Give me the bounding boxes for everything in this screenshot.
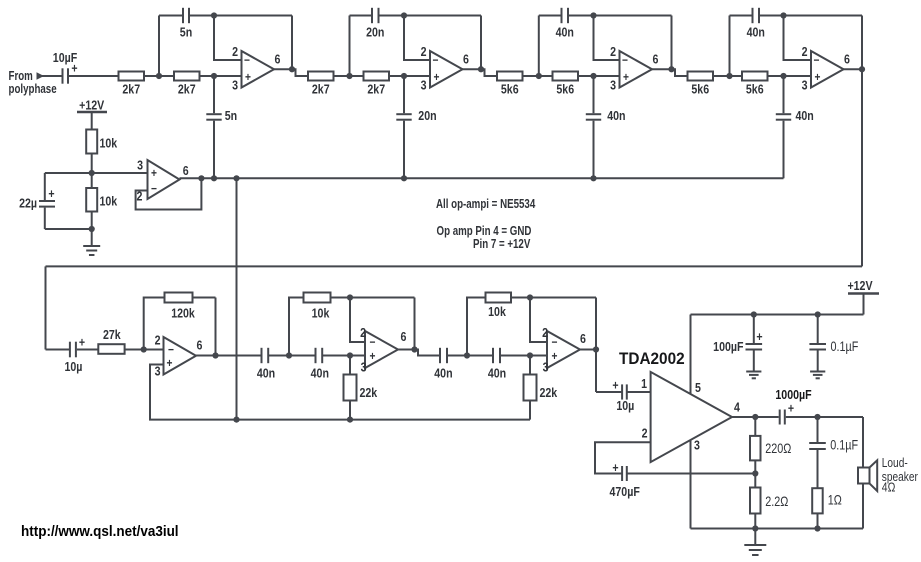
wire: B second cap to op B +input bbox=[323, 355, 365, 357]
wire: lower divider to ground node bbox=[91, 212, 93, 230]
svg-text:2k7: 2k7 bbox=[367, 83, 385, 97]
wire: speaker top lead bbox=[862, 417, 864, 468]
svg-text:−: − bbox=[370, 336, 376, 349]
svg-text:220Ω: 220Ω bbox=[765, 441, 791, 456]
resistor 2k7 (stage 2 first) bbox=[308, 72, 334, 97]
wire: divider mid bbox=[91, 154, 93, 189]
svg-text:2: 2 bbox=[542, 326, 548, 340]
svg-text:10k: 10k bbox=[100, 137, 118, 151]
wire: C second cap to op C +input bbox=[501, 355, 548, 357]
resistor 10k (lower divider) bbox=[86, 188, 118, 212]
capacitor 40n feedback (stage 4) bbox=[730, 8, 863, 40]
svg-text:6: 6 bbox=[653, 53, 659, 67]
capacitor 40n shunt (stage 4) bbox=[776, 76, 814, 178]
svg-text:20n: 20n bbox=[366, 26, 384, 40]
svg-text:40n: 40n bbox=[257, 367, 275, 381]
resistor 22k (B) bbox=[344, 356, 378, 420]
svg-text:+12V: +12V bbox=[79, 99, 104, 113]
svg-text:2.2Ω: 2.2Ω bbox=[765, 494, 788, 509]
svg-text:6: 6 bbox=[401, 330, 407, 344]
svg-text:10µ: 10µ bbox=[616, 399, 634, 413]
svg-text:120k: 120k bbox=[171, 307, 195, 321]
node: rail / second-row tap bbox=[233, 175, 239, 181]
node: stage 2 output junction bbox=[478, 66, 484, 72]
note: pin4 GND bbox=[437, 225, 532, 238]
node: rail / 20n shunt junction bbox=[401, 175, 407, 181]
svg-text:6: 6 bbox=[580, 332, 586, 346]
wire: op A output bbox=[196, 355, 261, 357]
svg-text:2: 2 bbox=[360, 326, 366, 340]
svg-text:1000µF: 1000µF bbox=[775, 388, 811, 402]
node: C feedback / pin2 junction bbox=[527, 294, 533, 300]
capacitor 0.1µF (supply) bbox=[809, 315, 858, 372]
svg-text:22k: 22k bbox=[360, 386, 378, 400]
svg-text:+: + bbox=[612, 379, 618, 393]
wire: stage 4 J2 to op-amp +input bbox=[768, 75, 812, 77]
svg-text:−: − bbox=[433, 54, 439, 67]
node: rail2 / rail drop junction bbox=[233, 417, 239, 423]
capacitor 100µF (supply) bbox=[713, 315, 763, 372]
svg-text:4Ω: 4Ω bbox=[882, 480, 896, 494]
svg-text:−: − bbox=[552, 336, 558, 349]
wire: stage 4 output down right edge bbox=[861, 69, 863, 266]
op-amp NE5534 stage 4 bbox=[802, 45, 851, 93]
wire: stage 3 pin2 drop bbox=[594, 16, 620, 61]
pin 4 label bbox=[734, 401, 740, 415]
node: stage 4 output junction bbox=[859, 66, 865, 72]
op-amp NE5534 A (second row) bbox=[155, 334, 203, 379]
node: rail2 / 22k junction bbox=[347, 417, 353, 423]
wire: reference rail bbox=[180, 177, 784, 179]
wire: pin5 to +12V rail bbox=[691, 315, 864, 395]
svg-text:−: − bbox=[168, 344, 174, 357]
note: pin7 +12V bbox=[473, 238, 531, 251]
svg-text:40n: 40n bbox=[311, 367, 329, 381]
svg-text:+: + bbox=[151, 167, 157, 180]
power +12V (divider supply) bbox=[77, 99, 107, 130]
svg-text:+: + bbox=[612, 461, 618, 475]
wire: stage 4 feedback riser from J1 bbox=[729, 16, 731, 77]
svg-text:3: 3 bbox=[694, 439, 700, 453]
svg-text:All op-ampi = NE5534: All op-ampi = NE5534 bbox=[436, 198, 536, 211]
svg-text:3: 3 bbox=[802, 79, 808, 93]
wire: 1000µF to speaker branch bbox=[786, 416, 863, 418]
svg-text:27k: 27k bbox=[103, 328, 121, 342]
node: output / 0.1µF zobel junction bbox=[814, 414, 820, 420]
node: stage 3 output junction bbox=[668, 66, 674, 72]
svg-text:+: + bbox=[167, 357, 173, 370]
svg-text:5n: 5n bbox=[180, 26, 192, 40]
svg-text:+: + bbox=[434, 71, 440, 84]
svg-text:3: 3 bbox=[543, 361, 549, 375]
svg-text:470µF: 470µF bbox=[610, 485, 640, 499]
wire: C node bbox=[448, 355, 494, 357]
node: stage 2 junction J1 bbox=[346, 73, 352, 79]
pin 5 label bbox=[695, 381, 701, 395]
wire: stage 1 node J1 bbox=[144, 75, 174, 77]
node: stage 3 junction J1 bbox=[536, 73, 542, 79]
node: op A input junction bbox=[141, 346, 147, 352]
capacitor 0.1µF (zobel) bbox=[809, 417, 858, 488]
svg-text:40n: 40n bbox=[607, 109, 625, 123]
capacitor 40n feedback (stage 3) bbox=[539, 8, 672, 40]
resistor 5k6 (stage 4 first) bbox=[688, 72, 714, 97]
svg-text:2: 2 bbox=[610, 45, 616, 59]
svg-text:+: + bbox=[245, 71, 251, 84]
op-amp NE5534 C (second row) bbox=[542, 326, 586, 375]
wire: op B output jog bbox=[398, 350, 440, 356]
wire: rail drop to second row + inputs bbox=[236, 178, 238, 419]
svg-text:5k6: 5k6 bbox=[691, 83, 709, 97]
resistor 22k (C) bbox=[524, 356, 558, 420]
wire: op A +input to rail2 bbox=[150, 365, 237, 420]
wire: stage 3 op-amp output bbox=[652, 69, 688, 76]
resistor 120k feedback bbox=[144, 293, 216, 356]
svg-text:2k7: 2k7 bbox=[312, 83, 330, 97]
svg-text:6: 6 bbox=[183, 164, 189, 178]
op-amp NE5534 follower (reference buffer) bbox=[137, 159, 190, 204]
svg-text:40n: 40n bbox=[556, 26, 574, 40]
svg-text:3: 3 bbox=[155, 365, 161, 379]
svg-text:3: 3 bbox=[610, 79, 616, 93]
svg-text:20n: 20n bbox=[418, 109, 436, 123]
wire: divider mid to follower +input bbox=[45, 172, 148, 174]
wire: C pin2 drop bbox=[530, 298, 547, 343]
wire: stage 3 J2 to op-amp +input bbox=[578, 75, 620, 77]
svg-text:100µF: 100µF bbox=[713, 340, 743, 354]
node: op B output junction bbox=[411, 346, 417, 352]
svg-text:22µ: 22µ bbox=[19, 197, 37, 211]
capacitor 40n (row2 C second) bbox=[488, 348, 506, 381]
node: B feedback / pin2 junction bbox=[347, 294, 353, 300]
wire: 10µ to pin1 bbox=[628, 391, 651, 393]
svg-text:6: 6 bbox=[844, 53, 850, 67]
svg-text:2: 2 bbox=[421, 45, 427, 59]
svg-text:2: 2 bbox=[802, 45, 808, 59]
wire: stage 1 feedback to output bbox=[291, 16, 293, 70]
capacitor 10µ (second row coupling) bbox=[46, 336, 86, 375]
resistor 2k7 (stage 1 first) bbox=[119, 72, 145, 97]
wire: speaker bottom lead bbox=[862, 484, 864, 529]
node: +12V rail / 0.1µF junction bbox=[815, 311, 821, 317]
node: stage 2 junction J2 bbox=[401, 73, 407, 79]
svg-text:+: + bbox=[79, 336, 85, 350]
svg-text:http://www.qsl.net/va3iul: http://www.qsl.net/va3iul bbox=[21, 523, 179, 540]
svg-text:1: 1 bbox=[641, 377, 647, 391]
svg-text:+: + bbox=[788, 402, 794, 416]
resistor 2k7 (stage 2 second) bbox=[364, 72, 390, 97]
ground (100µF) bbox=[746, 372, 761, 379]
svg-text:2: 2 bbox=[232, 45, 238, 59]
wire: stage 4 op-amp output bbox=[844, 68, 863, 70]
svg-text:−: − bbox=[151, 183, 157, 196]
svg-text:3: 3 bbox=[232, 79, 238, 93]
svg-text:−: − bbox=[622, 54, 628, 67]
label: site URL bbox=[21, 523, 179, 540]
resistor 2k7 (stage 1 second) bbox=[174, 72, 200, 97]
wire: stage 4 pin2 drop bbox=[784, 16, 812, 61]
wire: input to coupling cap bbox=[42, 75, 62, 77]
wire: stage 2 pin2 drop bbox=[404, 16, 430, 61]
node: ground rail / 1 junction bbox=[814, 525, 820, 531]
node: rail / 40n shunt junction bbox=[590, 175, 596, 181]
svg-text:40n: 40n bbox=[434, 367, 452, 381]
wire: 10µ to 27k bbox=[77, 349, 98, 351]
wire: stage 4 feedback to output bbox=[861, 16, 863, 70]
op-amp NE5534 B (second row) bbox=[360, 326, 407, 375]
wire: amplifier ground rail bbox=[691, 528, 864, 530]
wire: stage 2 J2 to op-amp +input bbox=[389, 75, 430, 77]
svg-text:5n: 5n bbox=[225, 109, 237, 123]
wire: B node bbox=[269, 355, 316, 357]
wire: rail2 (ground-reference row 2) bbox=[237, 419, 531, 421]
svg-text:40n: 40n bbox=[796, 109, 814, 123]
capacitor 40n shunt (stage 3) bbox=[586, 76, 626, 178]
svg-text:6: 6 bbox=[463, 53, 469, 67]
wire: stage 1 pin2 drop bbox=[214, 16, 242, 61]
svg-text:6: 6 bbox=[197, 339, 203, 353]
capacitor 40n (row2 C first) bbox=[434, 348, 452, 381]
svg-text:2: 2 bbox=[642, 427, 648, 441]
resistor 1Ω (zobel) bbox=[812, 488, 842, 528]
resistor 5k6 (stage 3 second) bbox=[553, 72, 579, 97]
svg-text:5k6: 5k6 bbox=[501, 83, 519, 97]
svg-text:+: + bbox=[552, 350, 558, 363]
capacitor 20n shunt (stage 2) bbox=[396, 76, 436, 178]
wire: stage 1 op-amp output bbox=[274, 69, 308, 76]
wire: stage 4 node J1 bbox=[713, 75, 742, 77]
svg-text:0.1µF: 0.1µF bbox=[831, 339, 859, 354]
node: stage 4 junction J2 bbox=[780, 73, 786, 79]
svg-text:40n: 40n bbox=[488, 367, 506, 381]
wire: stage 3 feedback riser from J1 bbox=[538, 16, 540, 77]
svg-text:22k: 22k bbox=[540, 386, 558, 400]
wire: stage 2 feedback to output bbox=[480, 16, 482, 70]
svg-text:10k: 10k bbox=[312, 307, 330, 321]
wire: stage 2 op-amp output bbox=[463, 69, 498, 76]
capacitor 10µF input coupling bbox=[53, 51, 78, 83]
svg-text:Op amp Pin 4 = GND: Op amp Pin 4 = GND bbox=[437, 225, 532, 238]
resistor 5k6 (stage 3 first) bbox=[497, 72, 523, 97]
resistor 10k (upper divider) bbox=[86, 130, 118, 154]
node: stage 1 output junction bbox=[289, 66, 295, 72]
resistor 10k feedback (B) bbox=[289, 293, 415, 356]
capacitor 5n feedback (stage 1) bbox=[159, 8, 292, 40]
svg-text:2k7: 2k7 bbox=[122, 83, 140, 97]
wire: B pin2 drop bbox=[350, 298, 365, 343]
resistor 5k6 (stage 4 second) bbox=[742, 72, 768, 97]
resistor 2.2Ω bbox=[750, 474, 788, 529]
svg-text:From: From bbox=[9, 70, 33, 83]
wire: 27k to op-amp A -input bbox=[125, 349, 164, 351]
svg-text:Pin 7 = +12V: Pin 7 = +12V bbox=[473, 238, 531, 251]
svg-text:10µ: 10µ bbox=[65, 360, 83, 374]
node: stage 1 junction J1 bbox=[156, 73, 162, 79]
svg-text:polyphase: polyphase bbox=[9, 83, 57, 96]
node: stage 1 junction J2 bbox=[211, 73, 217, 79]
label TDA2002 bbox=[619, 351, 685, 369]
svg-text:10k: 10k bbox=[488, 305, 506, 319]
op-amp NE5534 stage 1 bbox=[232, 45, 281, 93]
node: B middle node bbox=[286, 352, 292, 358]
svg-text:40n: 40n bbox=[747, 26, 765, 40]
svg-text:+: + bbox=[756, 330, 762, 344]
node: input label 'From polyphase' bbox=[9, 70, 57, 96]
resistor 220Ω (feedback) bbox=[750, 417, 791, 474]
wire: return line to second row bbox=[46, 265, 863, 267]
ground (divider) bbox=[83, 229, 100, 255]
wire: left drop to 10µ cap bbox=[45, 266, 47, 349]
wire: stage 1 J2 to op-amp +input bbox=[200, 75, 242, 77]
wire: op C output to TDA input bbox=[580, 350, 622, 393]
capacitor 20n feedback (stage 2) bbox=[350, 8, 482, 40]
wire: pin3 to ground rail bbox=[690, 440, 692, 529]
node: B output node junction bbox=[347, 352, 353, 358]
wire: follower feedback loop bbox=[136, 178, 202, 209]
node: C output node junction bbox=[527, 352, 533, 358]
svg-text:+: + bbox=[48, 187, 54, 201]
svg-text:−: − bbox=[814, 54, 820, 67]
svg-text:−: − bbox=[244, 54, 250, 67]
svg-text:2: 2 bbox=[155, 334, 161, 348]
svg-text:+: + bbox=[815, 71, 821, 84]
wire: 10µF to first 2k7 bbox=[69, 75, 119, 77]
ground (0.1µF) bbox=[810, 372, 825, 379]
note: op-amp type bbox=[436, 198, 536, 211]
node: divider ground junction bbox=[89, 226, 95, 232]
node: C middle node bbox=[464, 352, 470, 358]
capacitor 10µ (TDA input) bbox=[612, 379, 634, 414]
node: op A output / 120k junction bbox=[212, 352, 218, 358]
capacitor 22µ (reference bypass) bbox=[19, 173, 92, 229]
svg-text:Loud-: Loud- bbox=[882, 456, 908, 470]
node: follower feedback tap bbox=[198, 175, 204, 181]
wire: stage 3 feedback to output bbox=[671, 16, 673, 70]
capacitor 5n shunt (stage 1) bbox=[206, 76, 237, 178]
svg-text:+: + bbox=[71, 62, 77, 76]
svg-text:3: 3 bbox=[137, 159, 143, 173]
node: output / 220 junction bbox=[752, 414, 758, 420]
svg-text:TDA2002: TDA2002 bbox=[619, 351, 685, 369]
wire: 470µF to feedback junction bbox=[628, 473, 756, 475]
input arrow bbox=[37, 72, 45, 79]
node: stage 2 feedback top junction bbox=[401, 12, 407, 18]
node: rail / 5n shunt junction bbox=[211, 175, 217, 181]
wire: stage 2 node J1 bbox=[334, 75, 364, 77]
svg-text:5: 5 bbox=[695, 381, 701, 395]
node: op C output junction bbox=[593, 346, 599, 352]
svg-text:+12V: +12V bbox=[847, 279, 872, 293]
node: ground rail / 2.2 junction bbox=[752, 525, 758, 531]
pin 3 label bbox=[694, 439, 700, 453]
node: +12V rail / 100µF junction bbox=[751, 311, 757, 317]
capacitor 40n (row2 B second) bbox=[311, 348, 329, 381]
node: stage 3 junction J2 bbox=[590, 73, 596, 79]
loudspeaker 4Ω bbox=[858, 456, 918, 495]
svg-text:1Ω: 1Ω bbox=[828, 492, 842, 507]
node: stage 4 junction J1 bbox=[726, 73, 732, 79]
ground (amplifier) bbox=[744, 529, 766, 556]
power +12V (amplifier) bbox=[847, 279, 879, 314]
op-amp NE5534 stage 2 bbox=[421, 45, 470, 93]
node: stage 3 feedback top junction bbox=[590, 12, 596, 18]
svg-text:2: 2 bbox=[137, 190, 143, 204]
node: stage 1 feedback top junction bbox=[211, 12, 217, 18]
capacitor 470µF bbox=[610, 461, 640, 499]
resistor 10k feedback (C) bbox=[467, 293, 596, 356]
node: divider midpoint bbox=[89, 170, 95, 176]
svg-text:5k6: 5k6 bbox=[556, 83, 574, 97]
op-amp NE5534 stage 3 bbox=[610, 45, 659, 93]
wire: stage 2 feedback riser from J1 bbox=[349, 16, 351, 77]
svg-text:+: + bbox=[623, 71, 629, 84]
svg-text:5k6: 5k6 bbox=[746, 83, 764, 97]
svg-text:2k7: 2k7 bbox=[178, 83, 196, 97]
svg-text:4: 4 bbox=[734, 401, 740, 415]
svg-text:6: 6 bbox=[275, 53, 281, 67]
pin 2 label bbox=[642, 427, 648, 441]
wire: stage 3 node J1 bbox=[523, 75, 553, 77]
amplifier TDA2002 bbox=[651, 372, 732, 462]
pin 1 label bbox=[641, 377, 647, 391]
node: 220/2.2 feedback junction bbox=[752, 470, 758, 476]
svg-text:0.1µF: 0.1µF bbox=[830, 437, 858, 452]
svg-text:10k: 10k bbox=[100, 195, 118, 209]
capacitor 1000µF (output) bbox=[775, 388, 811, 424]
wire: stage 1 feedback riser from J1 bbox=[158, 16, 160, 77]
svg-text:3: 3 bbox=[361, 361, 367, 375]
resistor 27k bbox=[98, 328, 124, 354]
capacitor 40n (row2 B first) bbox=[257, 348, 275, 381]
wire: output pin4 bbox=[732, 416, 779, 418]
svg-text:3: 3 bbox=[421, 79, 427, 93]
svg-text:+: + bbox=[370, 350, 376, 363]
node: stage 4 feedback top junction bbox=[780, 12, 786, 18]
wire: pin2 to 470µF bbox=[595, 442, 651, 473]
